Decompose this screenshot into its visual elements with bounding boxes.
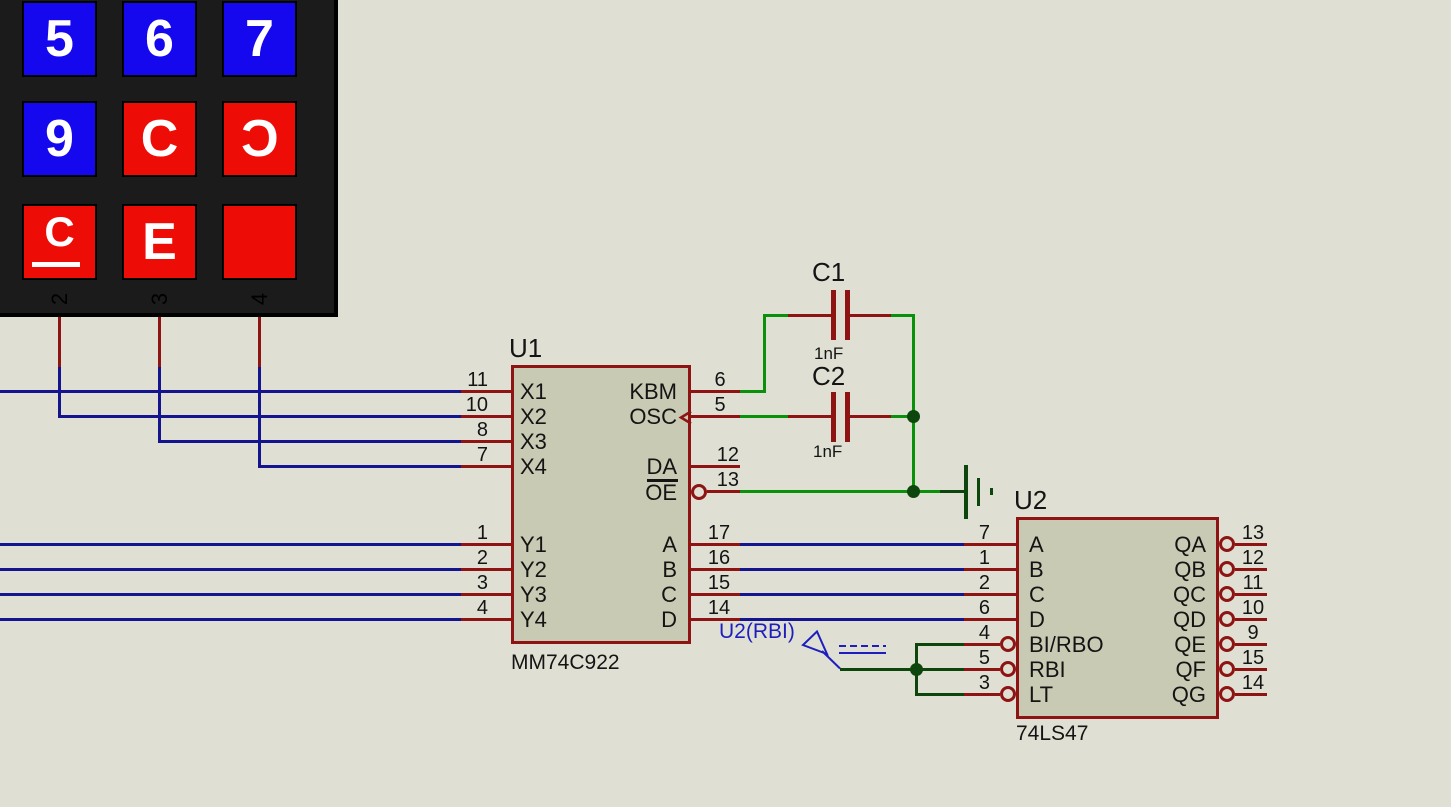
wire X4 net [258,465,461,468]
U1 OE overline [647,479,678,482]
U1 pin 11 lead [461,390,512,393]
keypad button C [122,101,197,177]
U1 pin label Y3 [520,582,547,607]
U1 pin number 17 [689,524,749,542]
U1 pin 3 lead [461,593,512,596]
U2 pin number 7 [930,524,990,542]
C1 left lead [788,314,831,317]
C2 left lead [788,415,831,418]
IC U2 74LS47 body [1016,517,1219,719]
keypad button C-underline [22,204,97,280]
U2 pin 4 BI/RBO bubble [1000,636,1016,652]
U1 pin label OSC [527,404,677,429]
U1 pin 8 lead [461,440,512,443]
U1 pin label KBM [527,379,677,404]
wire data net [740,543,964,546]
junction RBI riser [910,663,923,676]
U2 pin number 1 [930,549,990,567]
wire Y2 net [0,568,461,571]
C2 value label 1nF [813,442,842,462]
wire KBM to C1 [740,390,766,393]
U1 pin 12 DA lead [691,465,740,468]
U2 pin number 13 [1223,524,1283,542]
wire X2 net [58,415,461,418]
U2 pin label QD [1056,607,1206,632]
U2 pin 13 QA lead [1235,543,1268,546]
U2 pin label BI/RBO [1029,632,1104,657]
U2 pin label C [1029,582,1045,607]
U2 pin label QE [1056,632,1206,657]
keypad button mirrored C [222,101,297,177]
U1 pin number 7 [428,446,488,464]
keypad button 6 [122,1,197,77]
U1 pin 1 lead [461,543,512,546]
U1 pin 7 lead [461,465,512,468]
keypad button blank [222,204,297,280]
wire C2 right [891,415,913,418]
U2 value label 74LS47 [1016,722,1088,746]
U2 pin label QG [1056,682,1206,707]
U1 pin number 10 [428,396,488,414]
U1 pin number 13 [679,471,739,489]
U1 pin label Y2 [520,557,547,582]
keypad button 5 [22,1,97,77]
U1 pin number 1 [428,524,488,542]
keypad button 7 [222,1,297,77]
U1 pin number 6 [690,371,750,389]
U2 pin 13 QA bubble [1219,536,1235,552]
wire [258,367,261,469]
keypad column pin [58,317,61,368]
wire data net [740,618,964,621]
U2 pin number 2 [930,574,990,592]
wire data net [740,593,964,596]
U2 pin 2 lead [964,593,1016,596]
net label pointer triangle [796,626,846,674]
U2 pin 9 QE lead [1235,643,1268,646]
U1 pin number 3 [428,574,488,592]
U1 pin 13 OE bubble [691,484,707,500]
wire Y3 net [0,593,461,596]
U2 pin number 3 [930,674,990,692]
net label U2(RBI) [719,619,795,644]
keypad button E [122,204,197,280]
U1 pin 6 KBM lead [691,390,740,393]
U1 pin number 5 [690,396,750,414]
U1 pin 15 C lead [691,593,740,596]
wire Y1 net [0,543,461,546]
U2 pin 14 QG lead [1235,693,1268,696]
net label dashed mark [839,645,886,648]
U1 pin label X3 [520,429,547,454]
U2 pin label D [1029,607,1045,632]
wire control riser [915,643,918,696]
U1 pin 13 OE lead [707,490,741,493]
wire [58,367,61,419]
IC U1 MM74C922 body [511,365,691,644]
U1 pin 14 D lead [691,618,740,621]
U1 pin number 8 [428,421,488,439]
keypad (3x3 section visible) [0,0,338,317]
wire right riser to ground [912,314,915,494]
U2 pin 15 QF lead [1235,668,1268,671]
U2 pin 3 LT bubble [1000,686,1016,702]
U2 pin 4 BI/RBO lead [964,643,1001,646]
U1 OSC clock arrow [678,409,693,426]
keypad column pin [258,317,261,368]
U2 pin 14 QG bubble [1219,686,1235,702]
U1 pin 4 lead [461,618,512,621]
U1 pin 5 OSC lead [691,415,740,418]
U2 reference label [1014,486,1047,514]
U2 pin number 6 [930,599,990,617]
keypad pin label 4 [249,279,271,319]
U2 pin label B [1029,557,1044,582]
U2 pin 12 QB bubble [1219,561,1235,577]
wire C1 left riser [763,314,766,394]
U1 pin label Y1 [520,532,547,557]
U1 pin 10 lead [461,415,512,418]
C2 right lead [850,415,892,418]
U2 pin 10 QD bubble [1219,611,1235,627]
U2 pin label QB [1056,557,1206,582]
C1 right lead [850,314,892,317]
U2 pin label A [1029,532,1044,557]
U2 pin label QA [1056,532,1206,557]
U1 pin number 2 [428,549,488,567]
keypad pin label 2 [49,279,71,319]
U1 pin label X2 [520,404,547,429]
ground symbol [964,465,968,519]
U1 pin label A [527,532,677,557]
U1 pin label DA [527,454,677,479]
U2 pin label QC [1056,582,1206,607]
junction C2/riser [907,410,920,423]
keypad column pin [158,317,161,368]
U1 pin 16 B lead [691,568,740,571]
U1 pin 17 A lead [691,543,740,546]
U1 pin 2 lead [461,568,512,571]
U2 pin 5 RBI lead [964,668,1001,671]
U1 pin number 11 [428,371,488,389]
wire ground lead [940,490,964,493]
wire LT net [916,693,964,696]
U2 pin number 5 [930,649,990,667]
U2 pin number 12 [1223,549,1283,567]
wire OSC to C2 [740,415,788,418]
U2 pin 11 QC bubble [1219,586,1235,602]
U1 pin label OE (active low) [527,480,677,505]
U1 pin number 14 [689,599,749,617]
wire X1 net [0,390,461,393]
U1 pin label Y4 [520,607,547,632]
wire X3 net [158,440,461,443]
junction riser/ground wire [907,485,920,498]
U1 pin label B [527,557,677,582]
wire RBI net [840,668,964,671]
U1 pin number 4 [428,599,488,617]
U2 pin 11 QC lead [1235,593,1268,596]
U2 pin 6 lead [964,618,1016,621]
keypad button 9 [22,101,97,177]
net label solid mark [839,652,886,655]
C2 reference label [812,362,845,390]
U2 pin 1 lead [964,568,1016,571]
U2 pin 15 QF bubble [1219,661,1235,677]
U2 pin label RBI [1029,657,1066,682]
U2 pin label LT [1029,682,1053,707]
U2 pin number 14 [1223,674,1283,692]
U1 pin label C [527,582,677,607]
U1 pin number 15 [689,574,749,592]
U2 pin 12 QB lead [1235,568,1268,571]
U2 pin number 10 [1223,599,1283,617]
U1 reference label [509,334,542,362]
wire Y4 net [0,618,461,621]
U1 pin label D [527,607,677,632]
U1 value label MM74C922 [511,651,620,675]
U2 pin number 4 [930,624,990,642]
U2 pin 9 QE bubble [1219,636,1235,652]
wire data net [740,568,964,571]
wire OE to ground [740,490,940,493]
U1 pin number 16 [689,549,749,567]
C1 value label 1nF [814,344,843,364]
C1 reference label [812,258,845,286]
U2 pin label QF [1056,657,1206,682]
U1 pin label X1 [520,379,547,404]
U2 pin 10 QD lead [1235,618,1268,621]
U1 pin number 12 [679,446,739,464]
U2 pin 3 LT lead [964,693,1001,696]
U2 pin number 15 [1223,649,1283,667]
wire BI/RBO net [916,643,964,646]
U2 pin 7 lead [964,543,1016,546]
wire C1 left top [763,314,789,317]
U2 pin 5 RBI bubble [1000,661,1016,677]
wire C1 right top [891,314,915,317]
U2 pin number 11 [1223,574,1283,592]
keypad pin label 3 [149,279,171,319]
U2 pin number 9 [1223,624,1283,642]
keypad button C underline mark [32,262,81,267]
wire [158,367,161,444]
U1 pin label X4 [520,454,547,479]
